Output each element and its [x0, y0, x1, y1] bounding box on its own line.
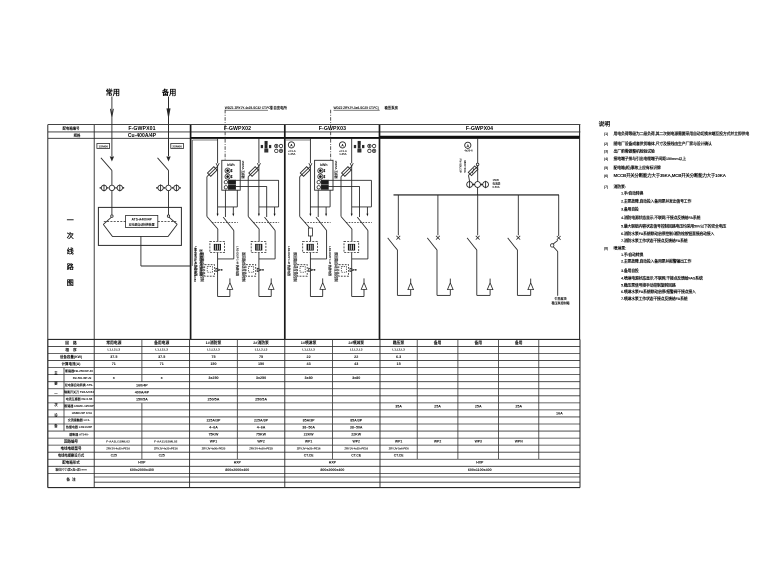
svg-text:常用电源: 常用电源 — [106, 340, 121, 345]
svg-text:线: 线 — [67, 247, 74, 256]
wire: panel 4 distribution busbar — [394, 194, 560, 196]
node: instruments cluster panel 3 (CT, ammeter, lamps) — [358, 141, 361, 144]
wire: secondary (ATS) bus stub panel 3 — [286, 139, 311, 141]
svg-text:38~50A: 38~50A — [350, 426, 363, 430]
svg-text:1-25A: 1-25A — [288, 152, 295, 156]
wire: ATS feed riser along border — [191, 140, 193, 266]
svg-text:(3): (3) — [604, 149, 608, 153]
svg-text:1#消防泵: 1#消防泵 — [206, 340, 222, 345]
svg-text:LR2-D/2P 1-M 热继电器: LR2-D/2P 1-M 热继电器 — [235, 246, 239, 276]
svg-text:ZRYJV-4x25+PE16: ZRYJV-4x25+PE16 — [344, 446, 368, 450]
wire: metered incoming (dash-dot) panel 2 — [224, 110, 226, 161]
svg-text:2#消防泵: 2#消防泵 — [253, 340, 269, 345]
svg-text:2.主泵故障,自动投入备用泵并报警输出工作: 2.主泵故障,自动投入备用泵并报警输出工作 — [621, 258, 691, 263]
svg-text:CT.CE: CT.CE — [394, 454, 405, 458]
svg-text:6.喷淋水泵FA系统联动启停/报警阀干接点接入: 6.喷淋水泵FA系统联动启停/报警阀干接点接入 — [621, 289, 696, 294]
svg-text:6.消防水泵FA系统联动启停控制/消防栓按钮直接启动接入: 6.消防水泵FA系统联动启停控制/消防栓按钮直接启动接入 — [621, 231, 714, 236]
table: vertical grid lines — [47, 339, 49, 487]
svg-text:CT.CE: CT.CE — [304, 454, 315, 458]
svg-text:F-GWPX04: F-GWPX04 — [466, 126, 493, 132]
svg-text:电线电缆敷设方式: 电线电缆敷设方式 — [58, 453, 85, 458]
svg-text:LR2-D/2P 1-M 热继电器: LR2-D/2P 1-M 热继电器 — [287, 246, 291, 276]
svg-text:5.稳压泵信号接手动控制旋转回路: 5.稳压泵信号接手动控制旋转回路 — [621, 282, 676, 287]
wire: supply to middle plug contact — [477, 166, 479, 182]
svg-text:HXP: HXP — [329, 461, 337, 465]
svg-text:37.5: 37.5 — [158, 355, 165, 359]
svg-text:4.喷淋电源状态显示,不联网,干接点反馈给FAS系统: 4.喷淋电源状态显示,不联网,干接点反馈给FAS系统 — [621, 275, 703, 280]
svg-text:备用电源: 备用电源 — [153, 340, 169, 345]
svg-text:5.最大联锁内容状态信号控制回路电压均采用50V以下的安全电: 5.最大联锁内容状态信号控制回路电压均采用50V以下的安全电压 — [621, 223, 726, 228]
svg-text:WDZ2 ZRYJY-3x6-SC25 CT.FC]: WDZ2 ZRYJY-3x6-SC25 CT.FC] — [334, 106, 379, 110]
wire: meter side outputs to 2# fire pump feeder — [236, 179, 279, 181]
svg-text:电流表: 电流表 — [493, 181, 501, 185]
svg-text:2#喷淋泵: 2#喷淋泵 — [348, 340, 364, 345]
svg-text:双电源自动转换装置: 双电源自动转换装置 — [129, 222, 155, 227]
svg-text:16A: 16A — [556, 411, 563, 415]
svg-text:HXP: HXP — [234, 461, 242, 465]
svg-text:37.5: 37.5 — [110, 355, 117, 359]
svg-text:75: 75 — [259, 355, 263, 359]
svg-text:25A: 25A — [515, 404, 522, 408]
lamps HL: indicator lamps — [368, 144, 371, 147]
svg-text:ZRYJV-4x25+PE16: ZRYJV-4x25+PE16 — [154, 446, 178, 450]
svg-text:L1,L2,L3: L1,L2,L3 — [108, 348, 121, 352]
node: incoming arrow (normal) — [110, 109, 113, 117]
wire: secondary (ATS) bus stub panel 2 — [193, 139, 218, 141]
svg-text:断路器FB-250/3P-40: 断路器FB-250/3P-40 — [65, 368, 93, 373]
svg-text:WP2: WP2 — [434, 440, 441, 444]
svg-text:熔断器 AT540-: 熔断器 AT540- — [69, 431, 89, 436]
svg-text:断路器 HSMC-125/3P: 断路器 HSMC-125/3P — [64, 403, 93, 408]
svg-text:用电负荷等级为二级负荷,其二次侧电源需要采用自动切换末端互投: 用电负荷等级为二级负荷,其二次侧电源需要采用自动切换末端互投方式并立即供电 — [613, 131, 750, 136]
svg-text:C25: C25 — [111, 454, 117, 458]
svg-text:ZRYJV-4x50+PE25: ZRYJV-4x50+PE25 — [249, 446, 273, 450]
svg-text:(5): (5) — [604, 166, 608, 170]
svg-text:22KW: 22KW — [304, 433, 315, 437]
svg-text:250/5A: 250/5A — [207, 397, 219, 401]
svg-text:85A/3P: 85A/3P — [350, 418, 363, 422]
svg-text:常用: 常用 — [106, 88, 120, 97]
feeder: 2# sprinkler pump circuit (panel 3) — [339, 139, 372, 297]
node: plug contact into isolator — [476, 163, 479, 166]
feeder: 2# fire pump circuit (panel 2) — [246, 139, 279, 297]
wire: header bottom line / main bus — [48, 137, 191, 139]
wire: normal incoming feeder — [111, 97, 113, 157]
fuse-isolator FU4 (diagonal fuse) — [469, 166, 478, 175]
svg-text:规格: 规格 — [73, 133, 81, 138]
svg-text:随电厂设备成套供货箱体,尺寸及接线由生产厂家与设计确认: 随电厂设备成套供货箱体,尺寸及接线由生产厂家与设计确认 — [614, 141, 712, 146]
svg-text:WPN: WPN — [515, 440, 523, 444]
svg-text:热继电器 LR2-D/3P: 热继电器 LR2-D/3P — [66, 424, 92, 429]
svg-text:HXP: HXP — [476, 461, 484, 465]
svg-text:回 路: 回 路 — [65, 340, 77, 345]
ATS U1 : dual-power automatic transfer switch — [98, 207, 181, 245]
svg-text:3x80: 3x80 — [352, 376, 360, 380]
svg-text:38~50A: 38~50A — [302, 426, 315, 430]
svg-text:路: 路 — [67, 262, 75, 271]
wire: standby incoming feeder — [168, 97, 170, 157]
svg-text:双回路自动互投控制: 双回路自动互投控制 — [241, 252, 246, 282]
svg-text:双回路自动互投控制: 双回路自动互投控制 — [200, 252, 205, 282]
wire: drawing top border — [48, 124, 581, 126]
svg-text:喷淋泵:: 喷淋泵: — [614, 245, 627, 250]
wire: meter outputs to 1# sprinkler pump feeder — [317, 190, 319, 217]
svg-text:380V 50A: 380V 50A — [463, 160, 467, 174]
svg-text:3x250: 3x250 — [256, 376, 266, 380]
breaker QF45 pressure-pump feeder with aux contact — [558, 195, 560, 236]
svg-text:225A/3P: 225A/3P — [254, 418, 269, 422]
svg-text:图: 图 — [67, 278, 74, 287]
panel 4 heavy top bar — [380, 136, 580, 138]
svg-text:双电源自动转换 ATS-: 双电源自动转换 ATS- — [64, 382, 94, 387]
svg-text:备用: 备用 — [514, 340, 523, 345]
svg-text:稳压泵: 稳压泵 — [393, 340, 405, 345]
ATS mechanical interlock (dashed) — [104, 221, 126, 223]
svg-text:43: 43 — [307, 362, 311, 366]
svg-text:kWh: kWh — [320, 163, 327, 167]
wire: panel border 2/3 — [284, 125, 286, 340]
svg-text:1-25A: 1-25A — [339, 152, 346, 156]
svg-text:4~6A: 4~6A — [257, 426, 266, 430]
svg-text:备 注: 备 注 — [65, 477, 76, 482]
svg-text:7.喷淋水泵工作状态干接点反馈给FA系统: 7.喷淋水泵工作状态干接点反馈给FA系统 — [621, 296, 688, 301]
svg-text:150/5: 150/5 — [493, 178, 500, 182]
breaker QF43 spare feeder 3 — [467, 195, 493, 296]
wire: left frame border — [47, 125, 49, 488]
svg-text:43: 43 — [354, 362, 358, 366]
svg-text:稳压泵房: 稳压泵房 — [385, 105, 399, 110]
svg-text:L1,L2,L3: L1,L2,L3 — [155, 348, 168, 352]
svg-text:150: 150 — [258, 362, 264, 366]
wire: meter outputs to 1# fire pump feeder — [224, 190, 226, 217]
svg-text:ZRYJV-4x25+PE16: ZRYJV-4x25+PE16 — [106, 446, 130, 450]
wire: metered incoming (dash-dot) panel 3 — [330, 110, 332, 161]
node: drawout plug contacts (normal) — [101, 185, 106, 190]
breaker QF41 spare feeder 1 — [388, 195, 414, 296]
svg-text:稳压泵控制箱: 稳压泵控制箱 — [551, 300, 569, 305]
svg-text:相 序: 相 序 — [65, 347, 77, 352]
svg-text:HSMC/4P 0.5A: HSMC/4P 0.5A — [72, 411, 93, 415]
svg-text:2.主泵故障,自动投入备用泵并发出信号工作: 2.主泵故障,自动投入备用泵并发出信号工作 — [621, 198, 691, 203]
svg-text:双回路自动互投控制: 双回路自动互投控制 — [334, 252, 339, 282]
svg-text:4x20-6: 4x20-6 — [464, 149, 473, 153]
svg-text:WP2: WP2 — [353, 440, 360, 444]
svg-text:3x250: 3x250 — [208, 376, 218, 380]
svg-text:kWh: kWh — [227, 163, 234, 167]
svg-text:2SM06: 2SM06 — [172, 144, 182, 148]
feeder: 1# fire pump circuit (panel 2) — [205, 139, 238, 297]
svg-text:接地端子排与引出电缆端子间距150mm以上: 接地端子排与引出电缆端子间距150mm以上 — [613, 156, 687, 161]
svg-text:C25: C25 — [159, 454, 165, 458]
svg-text:3.备用自投: 3.备用自投 — [621, 207, 639, 212]
svg-text:配电箱(柜)事故上应有标识牌: 配电箱(柜)事故上应有标识牌 — [614, 165, 661, 170]
svg-text:备: 备 — [53, 423, 58, 428]
svg-text:(2): (2) — [604, 142, 608, 146]
svg-text:ZRYJV-4x25+PE16: ZRYJV-4x25+PE16 — [297, 446, 321, 450]
svg-text:35A: 35A — [395, 404, 402, 408]
svg-text:备用: 备用 — [473, 340, 482, 345]
svg-text:F-AA11/1SML02: F-AA11/1SML02 — [154, 439, 177, 443]
node: incoming arrow (standby) — [167, 109, 170, 117]
svg-text:6.3: 6.3 — [396, 355, 401, 359]
svg-text:ZRYJV-5x6-PE6: ZRYJV-5x6-PE6 — [389, 446, 409, 450]
meter M1: kWh metering box panel 2 — [222, 160, 240, 190]
breaker QF1 (normal incoming) — [110, 157, 113, 160]
svg-text:说明: 说明 — [599, 120, 611, 128]
svg-text:22KW: 22KW — [351, 433, 362, 437]
svg-text:0-50A: 0-50A — [493, 185, 500, 189]
svg-text:(6): (6) — [604, 174, 608, 178]
wire: to ATS input 2 — [168, 191, 170, 208]
wire: panel border 1/2 (carries ATS feed) — [190, 125, 192, 340]
svg-text:配电箱编号: 配电箱编号 — [63, 125, 81, 130]
breaker QF2 (standby incoming) — [167, 157, 170, 160]
meter PA4: ammeter panel 4 — [465, 142, 471, 148]
svg-text:85A/3P: 85A/3P — [303, 418, 316, 422]
svg-text:150/5A: 150/5A — [136, 397, 148, 401]
svg-text:L1,L2,L3: L1,L2,L3 — [207, 348, 220, 352]
svg-text:4.消防电源状态显示,不联网,干接点反馈给FA系统: 4.消防电源状态显示,不联网,干接点反馈给FA系统 — [621, 215, 701, 220]
svg-text:引至屋顶: 引至屋顶 — [554, 296, 566, 301]
svg-text:25A: 25A — [434, 404, 441, 408]
ATS blade left — [103, 217, 111, 224]
svg-text:(7): (7) — [604, 185, 608, 189]
svg-text:备用: 备用 — [161, 88, 176, 97]
svg-text:CT.CE: CT.CE — [351, 454, 362, 458]
svg-text:A: A — [341, 143, 344, 147]
svg-text:150/5A 互感器: 150/5A 互感器 — [334, 161, 338, 179]
svg-text:F-GWPX01: F-GWPX01 — [128, 126, 155, 132]
svg-text:配电箱形式: 配电箱形式 — [62, 460, 80, 465]
svg-text:L1,L2,L3: L1,L2,L3 — [302, 348, 315, 352]
breaker QF42 spare feeder 2 — [427, 195, 453, 296]
node: drawout plug contacts (standby) — [158, 185, 163, 190]
wire: right border of schematic — [579, 125, 581, 340]
meter M2: kWh metering box panel 3 — [315, 160, 333, 190]
ATS label box ATS-A400/4P — [126, 215, 158, 227]
svg-text:7.消防水泵工作状态干接点反馈给FA系统: 7.消防水泵工作状态干接点反馈给FA系统 — [621, 238, 688, 243]
wire: main distribution bus (thick) panels 2-4 — [191, 137, 580, 139]
svg-text:出厂前需做整机检验试验: 出厂前需做整机检验试验 — [614, 148, 655, 153]
breaker QF44 spare feeder 4 — [508, 195, 534, 296]
wire: ATS output — [140, 236, 142, 266]
svg-text:71: 71 — [160, 362, 164, 366]
svg-text:22: 22 — [307, 355, 311, 359]
svg-text:回路编号: 回路编号 — [64, 439, 78, 444]
wire: meter side outputs to 2# sprinkler pump feeder — [328, 179, 371, 181]
feeder: 1# sprinkler pump circuit (panel 3) — [298, 139, 331, 297]
svg-text:HXP: HXP — [138, 461, 146, 465]
svg-text:75: 75 — [211, 355, 215, 359]
node: drawout contacts panel 4 — [469, 175, 470, 181]
node: meter tag box 2SM06 — [171, 144, 184, 149]
svg-text:75KW: 75KW — [256, 433, 267, 437]
svg-text:电线电缆型号: 电线电缆型号 — [61, 446, 82, 451]
svg-text:电流互感器 FB-0.66: 电流互感器 FB-0.66 — [66, 396, 93, 401]
svg-text:160/4P: 160/4P — [136, 383, 148, 387]
svg-text:4~6A: 4~6A — [209, 426, 218, 430]
svg-text:隔离开关刀 TB1A/C64: 隔离开关刀 TB1A/C64 — [64, 389, 94, 394]
svg-text:1.手/自动转换: 1.手/自动转换 — [621, 190, 643, 195]
svg-text:1#喷淋泵: 1#喷淋泵 — [301, 340, 317, 345]
svg-text:A: A — [466, 144, 469, 148]
svg-text:250/5A: 250/5A — [255, 397, 267, 401]
svg-text:WP3: WP3 — [475, 440, 482, 444]
wire: to ATS input 1 — [111, 191, 113, 208]
meter PA3: ammeter panel 3 feeder 2 — [339, 142, 345, 148]
svg-text:1.手/自动转换: 1.手/自动转换 — [621, 252, 643, 257]
lamps HL: indicator lamps — [275, 144, 278, 147]
svg-text:F-GWPX03: F-GWPX03 — [319, 126, 346, 132]
ATS output collector — [103, 224, 177, 236]
svg-text:LR2-D/2P 1-M 热继电器: LR2-D/2P 1-M 热继电器 — [328, 246, 332, 276]
svg-text:L1,L2,L3: L1,L2,L3 — [350, 348, 363, 352]
table: remark row sub-lines — [94, 476, 580, 478]
table: schedule grid horizontal lines — [48, 338, 580, 340]
wire: header row line — [48, 131, 581, 133]
svg-text:71: 71 — [112, 362, 116, 366]
svg-text:WP1: WP1 — [305, 440, 312, 444]
node: instruments cluster panel 2 (CT, ammeter, lamps) — [265, 141, 268, 144]
wire: panel 4 incoming drop — [477, 139, 479, 164]
ATS blade right — [169, 217, 177, 224]
svg-text:WDZ1 ZRYJY-4x25-SC32 CT.FC]: WDZ1 ZRYJY-4x25-SC32 CT.FC] — [225, 106, 272, 110]
svg-text:150: 150 — [210, 362, 216, 366]
svg-text:备用: 备用 — [433, 340, 442, 345]
svg-text:引自变电所: 引自变电所 — [270, 105, 288, 110]
svg-text:22: 22 — [354, 355, 358, 359]
svg-text:(8): (8) — [604, 246, 608, 250]
svg-text:800x2000x400: 800x2000x400 — [320, 468, 344, 472]
svg-text:A: A — [290, 143, 293, 147]
svg-text:设备容量(KW): 设备容量(KW) — [60, 354, 82, 359]
meter PA2: ammeter panel 3 feeder 1 — [288, 142, 294, 148]
svg-text:L1,L2,L3: L1,L2,L3 — [392, 348, 405, 352]
svg-text:225A/3P: 225A/3P — [206, 418, 221, 422]
wire: panel border column x=94 — [93, 138, 95, 339]
svg-text:L1,L2,L3: L1,L2,L3 — [255, 348, 268, 352]
svg-text:消防泵:: 消防泵: — [614, 184, 626, 189]
svg-text:150/5A 互感器: 150/5A 互感器 — [241, 161, 245, 179]
svg-text:WP1: WP1 — [395, 440, 402, 444]
node: header column divider — [93, 125, 95, 139]
svg-text:交流接触器 LC1-: 交流接触器 LC1- — [68, 417, 91, 422]
svg-text:3x80: 3x80 — [304, 376, 312, 380]
svg-text:MCCB开关分断能力大于35KA,MCB开关分断能力大于10: MCCB开关分断能力大于35KA,MCB开关分断能力大于10KA — [614, 172, 727, 179]
svg-text:ZRYJV-4x50+PE25: ZRYJV-4x50+PE25 — [202, 446, 226, 450]
wire: to panel 4 bus — [477, 188, 479, 195]
svg-text:WP2: WP2 — [257, 440, 264, 444]
svg-text:FN-50L/3P: FN-50L/3P — [458, 159, 462, 173]
svg-text:计算电流(A): 计算电流(A) — [62, 361, 81, 366]
svg-text:F-AA1L/1SML02: F-AA1L/1SML02 — [106, 439, 130, 443]
wire: panel border 3/4 — [379, 125, 381, 340]
svg-text:次: 次 — [67, 231, 74, 240]
svg-text:箱体尺寸(宽x高x深) mm: 箱体尺寸(宽x高x深) mm — [55, 466, 87, 471]
svg-text:3.备用自投: 3.备用自投 — [621, 268, 639, 273]
svg-text:一: 一 — [67, 217, 74, 224]
svg-text:800x2000x400: 800x2000x400 — [225, 468, 249, 472]
svg-text:(1): (1) — [604, 132, 608, 136]
svg-text:(4): (4) — [604, 157, 608, 161]
svg-text:双回路自动互投控制: 双回路自动互投控制 — [293, 252, 298, 282]
svg-text:1SM06: 1SM06 — [98, 144, 108, 148]
svg-text:75KW: 75KW — [208, 433, 219, 437]
svg-text:Cu-400A/4P: Cu-400A/4P — [128, 133, 157, 139]
svg-text:600x1100x400: 600x1100x400 — [468, 468, 492, 472]
svg-text:ATS-A400/4P: ATS-A400/4P — [132, 217, 153, 221]
svg-text:LR2-D/2P 1-M 热继电器: LR2-D/2P 1-M 热继电器 — [194, 246, 198, 276]
svg-text:WP1: WP1 — [210, 440, 217, 444]
svg-text:25A: 25A — [475, 404, 482, 408]
svg-text:FB-50L/3P+N: FB-50L/3P+N — [73, 376, 92, 380]
svg-text:15: 15 — [397, 362, 401, 366]
svg-text:400A/4P: 400A/4P — [135, 390, 150, 394]
svg-text:600x2000x400: 600x2000x400 — [130, 468, 154, 472]
svg-text:F-GWPX02: F-GWPX02 — [224, 126, 251, 132]
fuse F31 on sprinkler feeder line — [308, 228, 312, 236]
node: meter tag box 1SM06 — [97, 144, 110, 149]
